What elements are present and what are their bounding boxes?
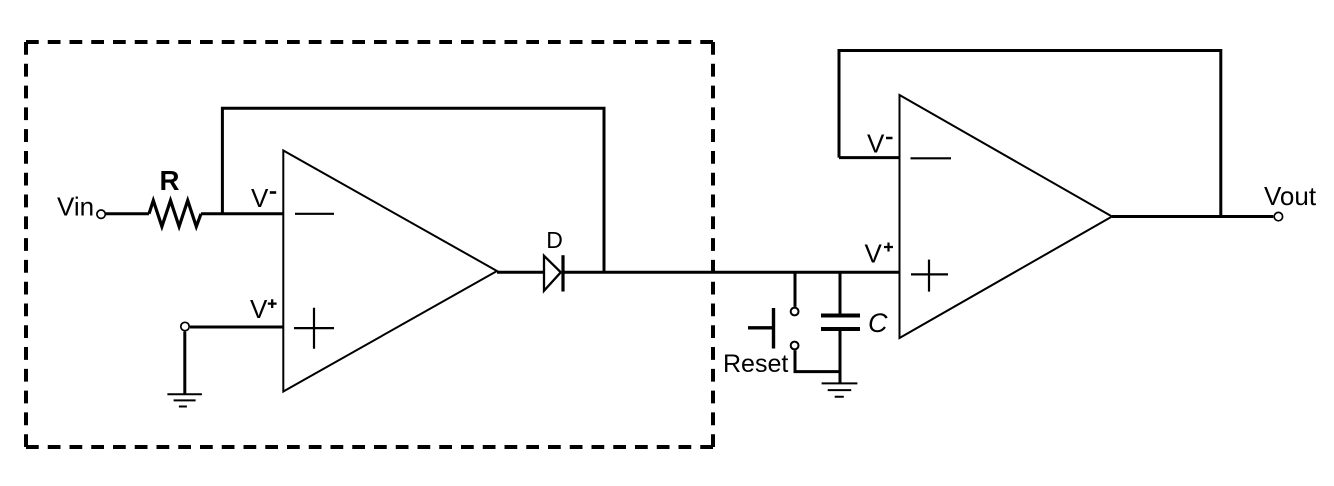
terminal Vin bbox=[97, 210, 105, 218]
ground (U1 input) bbox=[167, 394, 202, 406]
wire U2 output to Vout bbox=[1112, 215, 1273, 218]
svg-text:Vout: Vout bbox=[1264, 181, 1317, 211]
svg-text:R: R bbox=[160, 165, 180, 196]
svg-text:Vin: Vin bbox=[57, 192, 94, 222]
wire reset branch lower bbox=[795, 350, 840, 371]
svg-text:V: V bbox=[865, 238, 883, 268]
minus sign U1 bbox=[295, 213, 334, 215]
wire R to U1 inverting input bbox=[201, 212, 283, 215]
wire capacitor top bbox=[839, 271, 842, 314]
wire feedback U2 bbox=[839, 51, 1221, 217]
svg-text:V: V bbox=[250, 294, 268, 324]
superscript plus (U1) bbox=[268, 299, 277, 308]
switch Reset contact top bbox=[791, 308, 799, 316]
capacitor C bbox=[821, 316, 860, 330]
plus sign U1 bbox=[294, 308, 334, 349]
wire Vin to R bbox=[106, 212, 149, 215]
enclosure dashed box bbox=[26, 42, 713, 447]
terminal Vout bbox=[1274, 212, 1282, 220]
op-amp U2 bbox=[900, 95, 1113, 338]
svg-text:V: V bbox=[867, 128, 885, 158]
superscript minus (U2) bbox=[886, 137, 893, 140]
wire U1 output to diode bbox=[497, 271, 544, 274]
op-amp U1 bbox=[283, 151, 497, 392]
wire terminal to ground bbox=[183, 332, 186, 395]
svg-text:Reset: Reset bbox=[723, 350, 788, 378]
svg-text:V: V bbox=[251, 183, 269, 213]
superscript plus (U2) bbox=[884, 243, 893, 252]
ground (capacitor) bbox=[822, 383, 858, 396]
wire feedback U1 bbox=[222, 108, 604, 272]
diode D bbox=[544, 255, 563, 291]
svg-text:D: D bbox=[546, 227, 563, 253]
wire U2 inverting input bbox=[839, 156, 900, 159]
switch Reset actuator bbox=[748, 308, 774, 349]
plus sign U2 bbox=[911, 260, 948, 292]
wire diode to U2 non-inverting input bbox=[564, 271, 900, 274]
wire capacitor bottom bbox=[839, 331, 842, 384]
minus sign U2 bbox=[911, 157, 952, 159]
wire reset branch upper bbox=[794, 271, 797, 307]
superscript minus (U1) bbox=[270, 191, 276, 194]
wire terminal to U1 V+ bbox=[190, 326, 283, 329]
resistor R bbox=[149, 201, 201, 227]
switch Reset contact bottom bbox=[791, 342, 799, 350]
terminal (U1 non-inverting input) bbox=[181, 322, 189, 330]
svg-text:C: C bbox=[868, 308, 888, 338]
